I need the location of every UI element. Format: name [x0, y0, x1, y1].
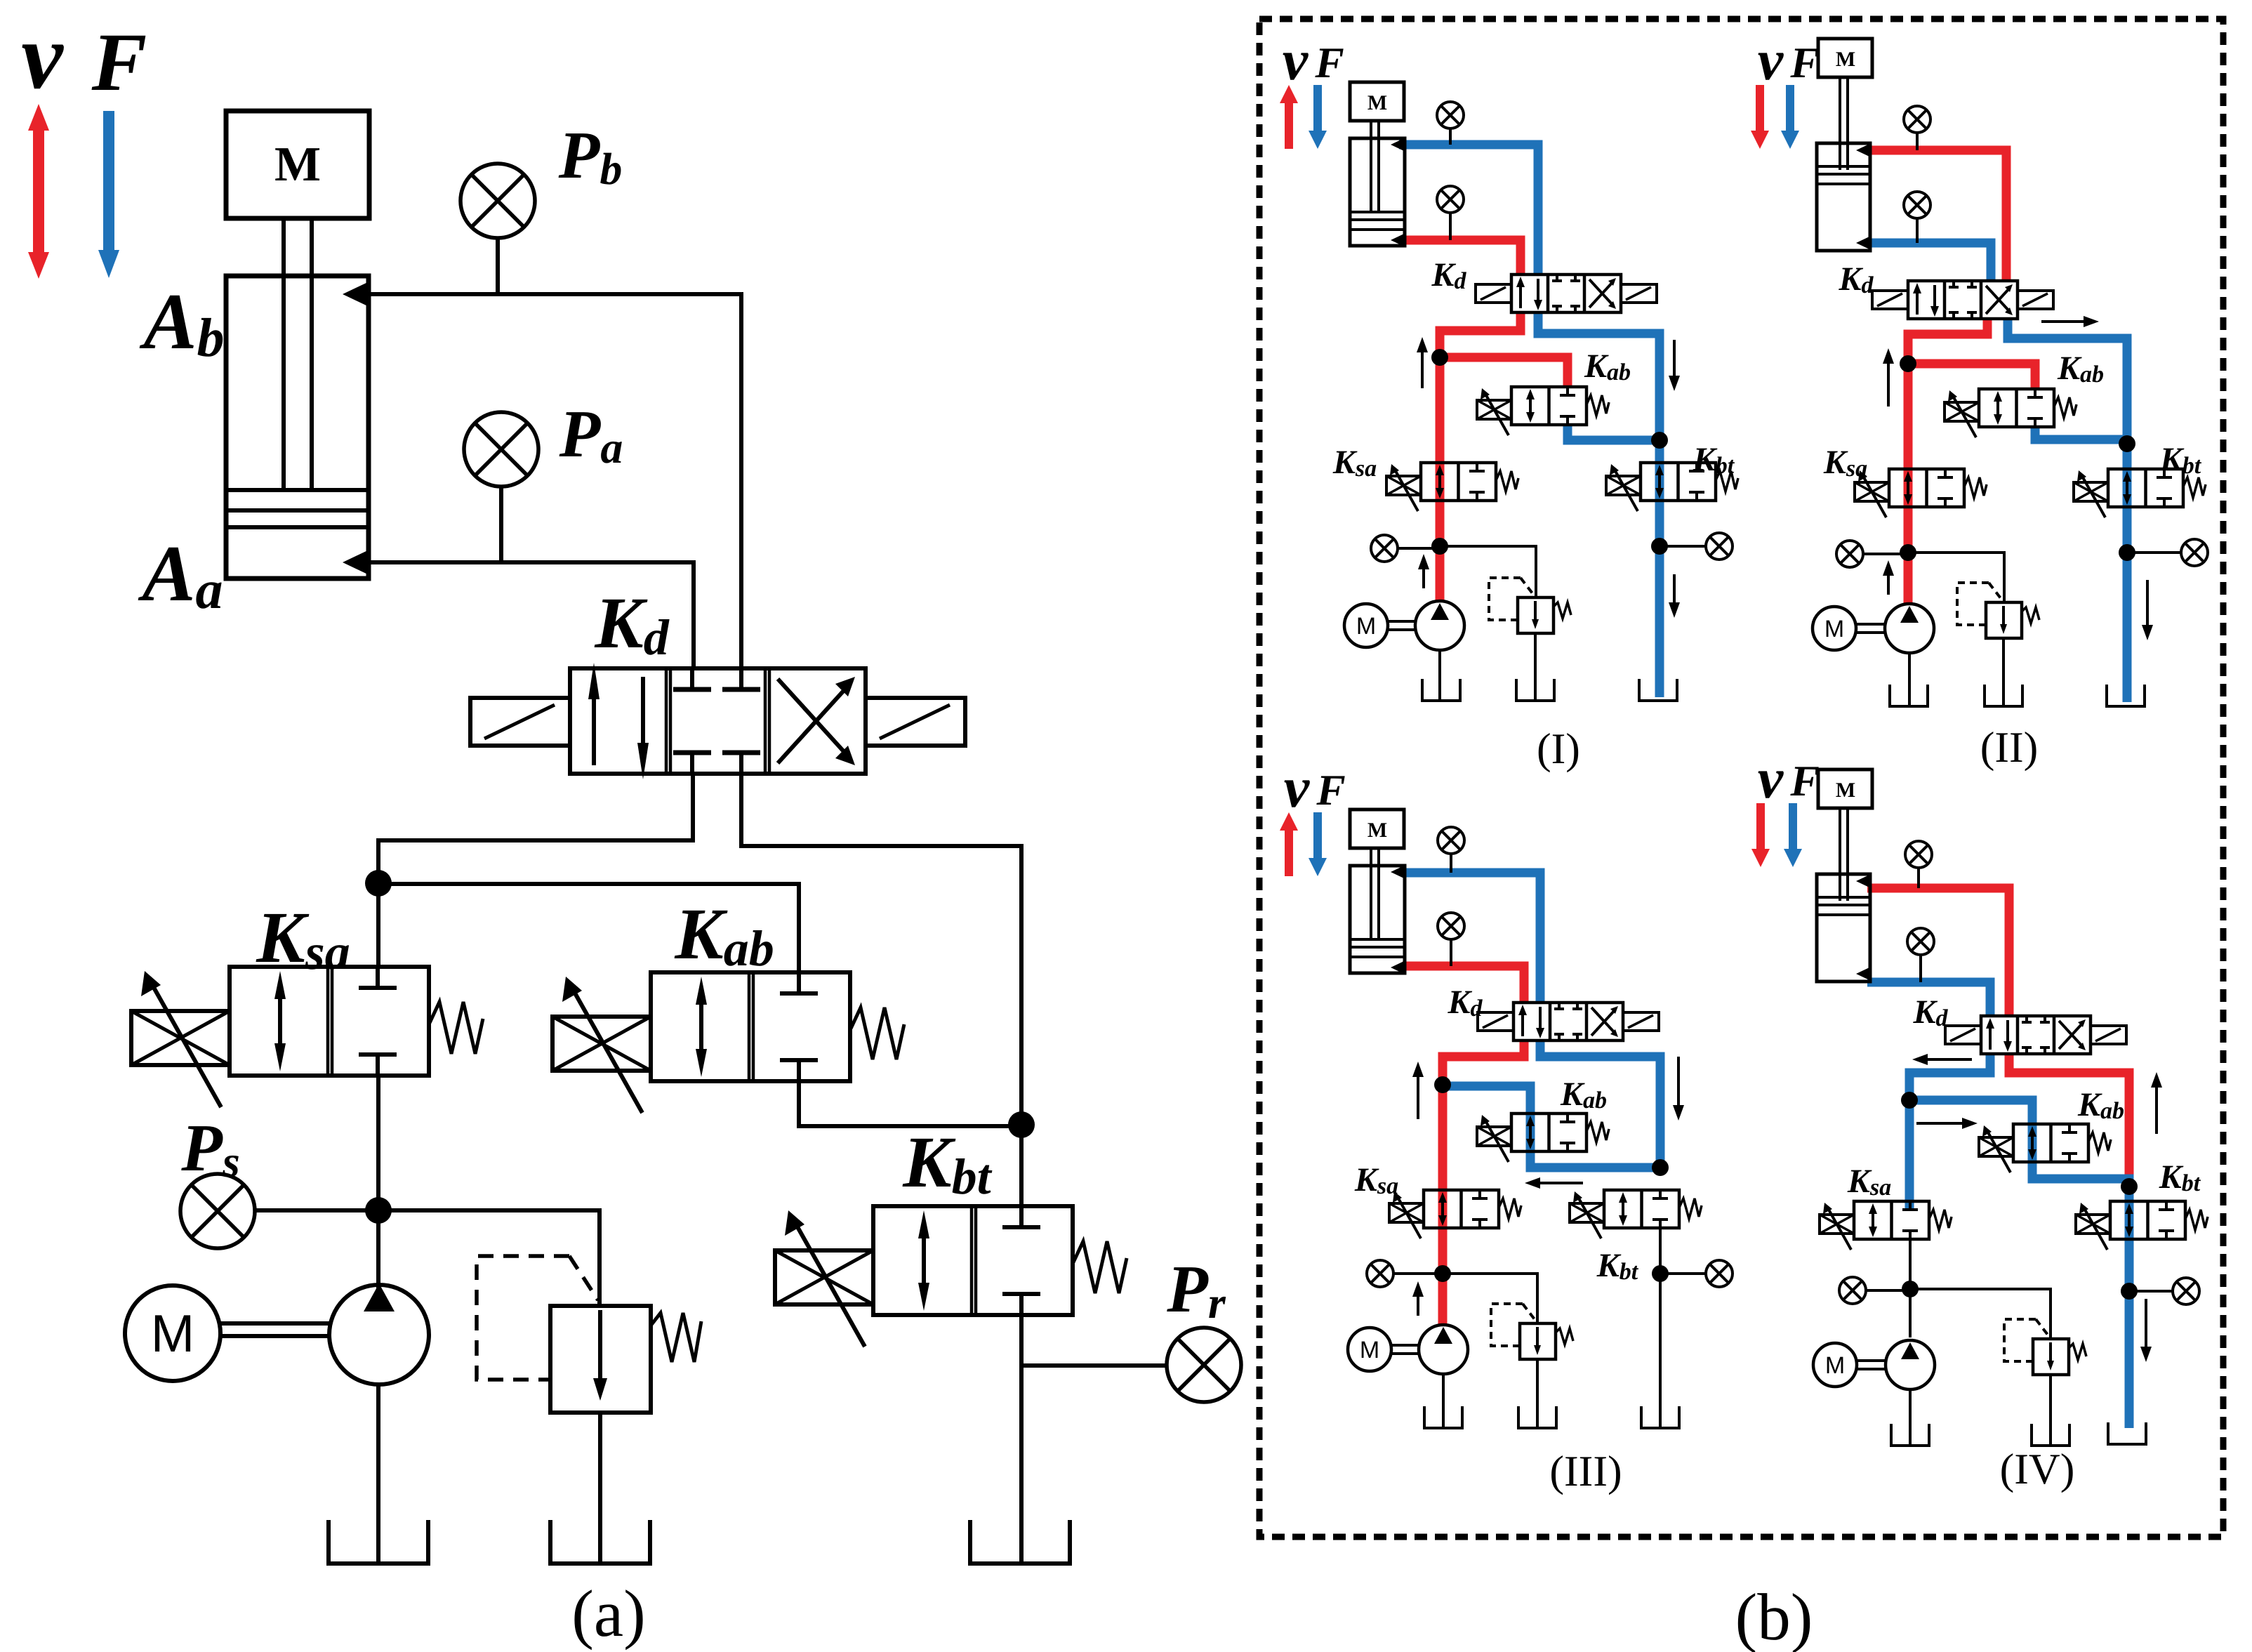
sub-circuit IV valve Ksa (closed)	[1854, 1201, 1929, 1239]
sub-circuit II node dot on pump line	[1900, 355, 1916, 372]
svg-text:v: v	[21, 4, 64, 108]
svg-text:M: M	[1825, 1352, 1845, 1379]
svg-text:F: F	[1316, 767, 1345, 814]
relief valve body	[550, 1306, 651, 1413]
svg-text:(IV): (IV)	[2000, 1446, 2075, 1493]
sub-circuit IV mass block and cylinder (retracted)	[1818, 769, 1872, 808]
wire Kbt line to Pr gauge	[1021, 1363, 1167, 1368]
sub-circuit I wire relief to tank	[1534, 633, 1537, 699]
proportional valve Kab	[651, 972, 850, 1081]
wire Ksa bottom to pump node	[376, 1077, 380, 1210]
sub-circuit II motor	[1813, 607, 1856, 650]
wire pump node to relief valve	[378, 1210, 600, 1306]
sub-circuit III pump	[1419, 1325, 1468, 1374]
sub-circuit II tanks	[1890, 685, 1928, 706]
wire pump to tank	[376, 1385, 380, 1564]
sub-circuit IV wire to relief valve	[1910, 1289, 2051, 1339]
wire pump node to pump	[376, 1210, 380, 1289]
sub-circuit I pump	[1415, 601, 1464, 650]
sub-circuit II red flow path (pump to cylinder B)	[1867, 150, 2006, 281]
electric motor M	[125, 1286, 220, 1381]
sub-circuit I down flow arrow at tank return	[1673, 574, 1676, 607]
wire Kd port B down-right to node B	[741, 774, 1021, 1125]
sub-circuit IV node dot on A-line	[1901, 1092, 1918, 1109]
svg-text:M: M	[274, 138, 321, 192]
relief valve pilot dashed line	[477, 1256, 569, 1380]
sub-circuit I up flow arrow near node	[1421, 348, 1424, 388]
sub-circuit I wire pump to tank	[1438, 650, 1441, 699]
sub-circuit III up flow arrow near pump	[1417, 1293, 1419, 1316]
wire Pa gauge stem	[499, 487, 503, 562]
sub-circuit IV up flow arrow on right line	[2155, 1083, 2158, 1134]
sub-circuit III right node dot	[1652, 1265, 1669, 1282]
sub-circuit III wire relief to tank	[1536, 1359, 1539, 1427]
sub-circuit I down flow arrow on B-line	[1673, 340, 1676, 380]
sub-circuit IV relief valve	[2033, 1339, 2069, 1375]
sub-circuit III pump node dot	[1434, 1265, 1451, 1282]
sub-circuit III left flow arrow under Kab	[1536, 1182, 1583, 1184]
sub-circuit II right node dot	[2119, 544, 2135, 561]
node A junction dot	[365, 870, 392, 897]
sub-circuit I gauge Pb	[1437, 102, 1464, 128]
sub-circuit II blue flow path (cylinder A to tank)	[1867, 243, 1991, 281]
svg-text:v: v	[1284, 755, 1311, 819]
svg-text:M: M	[1367, 819, 1387, 842]
sub-circuit III valve Kbt (closed)	[1604, 1190, 1679, 1228]
cylinder port B arrow	[343, 281, 371, 308]
sub-circuit IV right gauge	[2129, 1290, 2173, 1293]
sub-circuit III valve Kd	[1514, 1003, 1623, 1040]
sub-circuit I mass block and cylinder (extended)	[1350, 82, 1404, 121]
sub-circuit II up flow arrow near pump	[1887, 571, 1890, 595]
cylinder piston	[226, 488, 369, 492]
sub-circuit II right gauge	[2127, 551, 2181, 554]
wire cylinder-A to Kd (lower line)	[369, 562, 694, 668]
sub-circuit III tanks	[1424, 1406, 1462, 1428]
sub-circuit I right node dot	[1651, 538, 1668, 555]
proportional valve Kbt	[873, 1206, 1073, 1315]
sub-circuit II pump	[1885, 604, 1934, 653]
sub-circuit I relief pilot dashed	[1489, 578, 1521, 620]
force arrow (blue, down)	[103, 111, 114, 254]
sub-circuit II down flow arrow at tank return	[2146, 580, 2149, 629]
sub-circuit II wire to relief valve	[1908, 553, 2004, 602]
sub-circuit I gauge Ps	[1371, 535, 1398, 562]
sub-circuit IV left flow arrow near Kd	[1923, 1058, 1972, 1061]
sub-circuit II mass block and cylinder (retracted)	[1818, 39, 1872, 77]
sub-circuit III motor	[1348, 1328, 1391, 1371]
pressure gauge Pr	[1167, 1328, 1241, 1402]
sub-circuit IV down flow arrow at tank return	[2145, 1299, 2147, 1351]
sub-circuit II up flow arrow near node	[1887, 359, 1890, 407]
svg-text:M: M	[1836, 779, 1855, 802]
sub-circuit IV pump node dot	[1902, 1281, 1919, 1297]
sub-circuit II valve Kab (closed)	[1979, 389, 2054, 427]
piston rod	[281, 218, 286, 490]
svg-text:(III): (III)	[1549, 1448, 1622, 1495]
wire Kab bottom to node B	[799, 1083, 1021, 1126]
velocity arrow (red, double-headed)	[33, 126, 44, 256]
panel (b) dashed border	[1259, 19, 2223, 1537]
tank under relief valve	[550, 1520, 650, 1564]
cylinder port A arrow	[343, 549, 371, 576]
sub-circuit III right gauge	[1660, 1272, 1706, 1275]
sub-circuit IV blue flow path (cylinder A through Kab to tank)	[1867, 982, 1990, 1016]
sub-circuit IV valve Kbt (open)	[2110, 1201, 2185, 1239]
svg-text:M: M	[1360, 1337, 1379, 1363]
sub-circuit I valve Ksa (open)	[1421, 463, 1496, 501]
sub-circuit III wire pump to tank	[1442, 1374, 1445, 1427]
directional valve Kd (4/3 proportional)	[570, 668, 866, 774]
mass block M on cylinder rod	[226, 111, 369, 218]
sub-circuit II gauge Pb	[1904, 106, 1930, 133]
sub-circuit III wire to relief valve	[1443, 1274, 1537, 1323]
sub-circuit I blue flow path (cylinder B to tank)	[1399, 145, 1538, 275]
sub-circuit II valve Kd (crossed position)	[1908, 281, 2018, 319]
sub-circuit IV relief pilot dashed	[2004, 1319, 2036, 1361]
sub-circuit III down flow arrow on B-line	[1677, 1057, 1680, 1109]
sub-circuit III relief valve	[1520, 1323, 1556, 1359]
pressure gauge Pb	[461, 164, 535, 238]
relief valve spring	[651, 1313, 701, 1362]
svg-text:v: v	[1283, 28, 1309, 92]
sub-circuit I right gauge	[1660, 545, 1706, 548]
sub-circuit I node dot at Kbt branch	[1651, 432, 1668, 449]
node B junction dot	[1008, 1111, 1035, 1138]
sub-circuit I pump node dot	[1431, 538, 1448, 555]
sub-circuit IV wire pump to tank	[1909, 1389, 1912, 1444]
wire node A to Ksa top port	[376, 883, 380, 967]
sub-circuit III blue flow path (cylinder B regeneration via Kab)	[1402, 873, 1540, 1003]
sub-circuit IV valve Kd	[1981, 1016, 2091, 1054]
sub-circuit II relief pilot dashed	[1957, 583, 1989, 625]
sub-circuit II wire pump to tank	[1908, 653, 1911, 705]
sub-circuit IV right node dot	[2121, 1283, 2138, 1300]
sub-circuit IV motor	[1813, 1343, 1857, 1387]
wire node B to Kbt top port	[1019, 1125, 1024, 1206]
sub-circuit III gauge Ps	[1367, 1260, 1393, 1287]
sub-circuit III up flow arrow near node	[1417, 1073, 1419, 1119]
sub-circuit III red flow path (pump to cylinder A)	[1403, 966, 1524, 1003]
sub-circuit IV tanks	[1891, 1424, 1929, 1446]
sub-circuit I motor	[1344, 604, 1388, 647]
sub-circuit IV wire Ksa to pump node	[1909, 1239, 1912, 1337]
svg-text:F: F	[91, 16, 147, 108]
sub-circuit II relief valve	[1986, 602, 2022, 638]
tank under Kbt	[970, 1520, 1070, 1564]
sub-circuit IV node dot at Kbt branch	[2121, 1178, 2138, 1195]
sub-circuit I gauge Pa	[1437, 186, 1464, 213]
wire relief valve to tank	[598, 1413, 602, 1564]
svg-text:(a): (a)	[571, 1576, 645, 1651]
svg-text:M: M	[151, 1304, 194, 1363]
sub-circuit III gauge Pa	[1438, 913, 1464, 939]
sub-circuit I valve Kbt (open)	[1641, 463, 1716, 501]
wire Ps gauge to pump node	[255, 1208, 378, 1212]
svg-text:v: v	[1758, 28, 1784, 92]
sub-circuit II pump node dot	[1900, 544, 1916, 561]
sub-circuit III valve Kab (open)	[1511, 1114, 1587, 1151]
sub-circuit II node dot at Kbt branch	[2119, 435, 2135, 452]
svg-text:v: v	[1758, 746, 1784, 810]
sub-circuit II valve Ksa (open)	[1889, 469, 1964, 507]
wire Pb gauge stem	[496, 238, 500, 294]
proportional valve Ksa	[230, 967, 429, 1076]
sub-circuit I up flow arrow near pump	[1422, 565, 1425, 588]
svg-text:M: M	[1367, 91, 1387, 114]
svg-text:(II): (II)	[1980, 724, 2039, 772]
svg-text:F: F	[1314, 39, 1344, 87]
sub-circuit III valve Ksa (open)	[1424, 1190, 1499, 1228]
sub-circuit II right flow arrow near Kd	[2041, 320, 2088, 323]
pump node junction dot	[365, 1197, 392, 1224]
svg-text:F: F	[1789, 758, 1819, 805]
sub-circuit IV right flow arrow under node	[1916, 1122, 1966, 1125]
sub-circuit IV gauge Ps	[1839, 1277, 1866, 1304]
svg-text:F: F	[1789, 39, 1819, 87]
sub-circuit II valve Kbt (open)	[2108, 469, 2183, 507]
sub-circuit I relief valve	[1518, 597, 1554, 633]
wire Kbt bottom to tank	[1019, 1315, 1024, 1564]
sub-circuit III gauge Pb	[1438, 827, 1464, 854]
sub-circuit IV valve Kab (open)	[2013, 1124, 2088, 1162]
pressure gauge Pa	[464, 412, 538, 487]
tank under pump	[329, 1520, 428, 1564]
svg-text:(I): (I)	[1537, 725, 1580, 773]
cylinder lower separator line	[226, 525, 369, 529]
sub-circuit I wire to relief valve	[1440, 546, 1536, 597]
sub-circuit III node dot at Kbt branch	[1652, 1159, 1669, 1176]
svg-text:(b): (b)	[1735, 1580, 1813, 1652]
sub-circuit III wire Kbt to tank line	[1659, 1228, 1662, 1427]
sub-circuit IV gauge Pa	[1907, 928, 1934, 955]
sub-circuit I valve Kab (closed)	[1511, 387, 1587, 425]
sub-circuit III relief pilot dashed	[1491, 1304, 1523, 1346]
sub-circuit I node dot on A-line	[1431, 349, 1448, 366]
wire Kd port A down-left to node A	[378, 774, 693, 883]
svg-text:M: M	[1824, 616, 1844, 642]
relief valve internal arrow	[598, 1310, 602, 1382]
sub-circuit IV gauge Pb	[1905, 841, 1932, 868]
sub-circuit IV wire relief to tank	[2049, 1375, 2052, 1444]
pump	[329, 1285, 429, 1385]
sub-circuit IV red flow path (cylinder B to node)	[1867, 888, 2009, 1016]
svg-text:M: M	[1836, 48, 1855, 71]
svg-text:M: M	[1356, 613, 1376, 640]
sub-circuit II gauge Pa	[1904, 192, 1930, 218]
sub-circuit III mass block and cylinder (extended)	[1350, 810, 1404, 848]
wire cylinder-B to Kd (top line)	[369, 294, 741, 668]
pressure gauge Ps	[180, 1174, 255, 1248]
motor-pump shaft	[220, 1321, 331, 1326]
wire node A to Kab	[378, 884, 799, 972]
sub-circuit III node dot (regeneration node)	[1434, 1076, 1451, 1093]
hydraulic cylinder body	[226, 276, 369, 579]
sub-circuit II gauge Ps	[1836, 541, 1863, 567]
sub-circuit IV pump	[1886, 1340, 1935, 1389]
sub-circuit I tanks	[1422, 679, 1460, 701]
sub-circuit I valve Kd	[1511, 275, 1621, 312]
sub-circuit I red flow path (pump to cylinder A)	[1401, 240, 1521, 275]
sub-circuit II wire relief to tank	[2002, 638, 2005, 705]
